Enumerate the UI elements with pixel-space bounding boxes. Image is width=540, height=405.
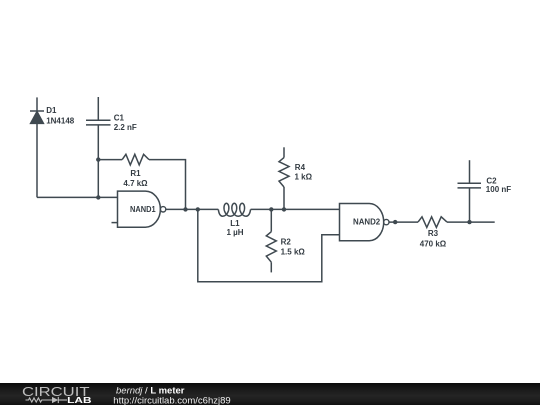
node: junction R1 feedback on output [183, 207, 187, 211]
capacitor C1 [86, 97, 111, 197]
node: junction C1/D1 wire [96, 195, 100, 199]
node: junction R4 bottom [282, 207, 286, 211]
svg-text:1.5 kΩ: 1.5 kΩ [281, 247, 306, 256]
svg-text:2.2 nF: 2.2 nF [114, 123, 137, 132]
resistor R1 [122, 154, 149, 165]
wire: NAND2 output to R3 [389, 221, 418, 223]
logo mini schematic [26, 397, 68, 403]
node: junction C2 bottom [467, 220, 471, 224]
svg-text:NAND2: NAND2 [353, 218, 381, 227]
op-amp NAND2 gate body [340, 204, 389, 241]
op-amp NAND1 gate body [118, 191, 166, 227]
wire: feedback from output node down and to NAND2 input B [198, 209, 340, 281]
wire: NAND1 output to L1 [166, 208, 219, 210]
wire: R3 to C2 node and right end [447, 221, 495, 223]
svg-text:NAND1: NAND1 [130, 205, 156, 214]
svg-text:http://circuitlab.com/c6hzj89: http://circuitlab.com/c6hzj89 [113, 395, 230, 405]
svg-text:470 kΩ: 470 kΩ [420, 240, 447, 249]
resistor R2 [266, 209, 276, 272]
wire: NAND1 input B stub [112, 222, 118, 224]
wire: D1 branch vertical [36, 97, 38, 197]
svg-text:D1: D1 [46, 106, 57, 115]
diode D1 [30, 111, 44, 123]
svg-text:C1: C1 [114, 114, 125, 123]
resistor R4 [279, 147, 289, 209]
capacitor C2 [458, 160, 482, 222]
svg-text:R2: R2 [281, 238, 292, 247]
svg-text:L1: L1 [230, 219, 240, 228]
wire: node to R1 left [98, 159, 122, 161]
svg-text:LAB: LAB [67, 396, 91, 405]
svg-text:R3: R3 [428, 229, 439, 238]
wire: R1 right feedback down to NAND1 output [149, 160, 186, 210]
svg-text:1 kΩ: 1 kΩ [295, 172, 313, 181]
svg-text:100 nF: 100 nF [486, 185, 511, 194]
resistor R3 [418, 217, 447, 228]
svg-text:R1: R1 [130, 169, 141, 178]
svg-text:1N4148: 1N4148 [46, 117, 75, 126]
svg-text:4.7 kΩ: 4.7 kΩ [123, 179, 148, 188]
node: junction C1/R1 [96, 157, 100, 161]
node: junction lower feedback on output [196, 207, 200, 211]
inductor L1 [218, 203, 250, 216]
svg-text:R4: R4 [295, 163, 306, 172]
svg-text:1 µH: 1 µH [226, 228, 243, 237]
footer bar [0, 383, 540, 405]
wire: L1 to NAND2 input A [251, 208, 340, 210]
node: junction NAND2 output [393, 220, 397, 224]
wire: D1 to NAND1 input A [37, 196, 118, 198]
node: junction R2 top [269, 207, 273, 211]
